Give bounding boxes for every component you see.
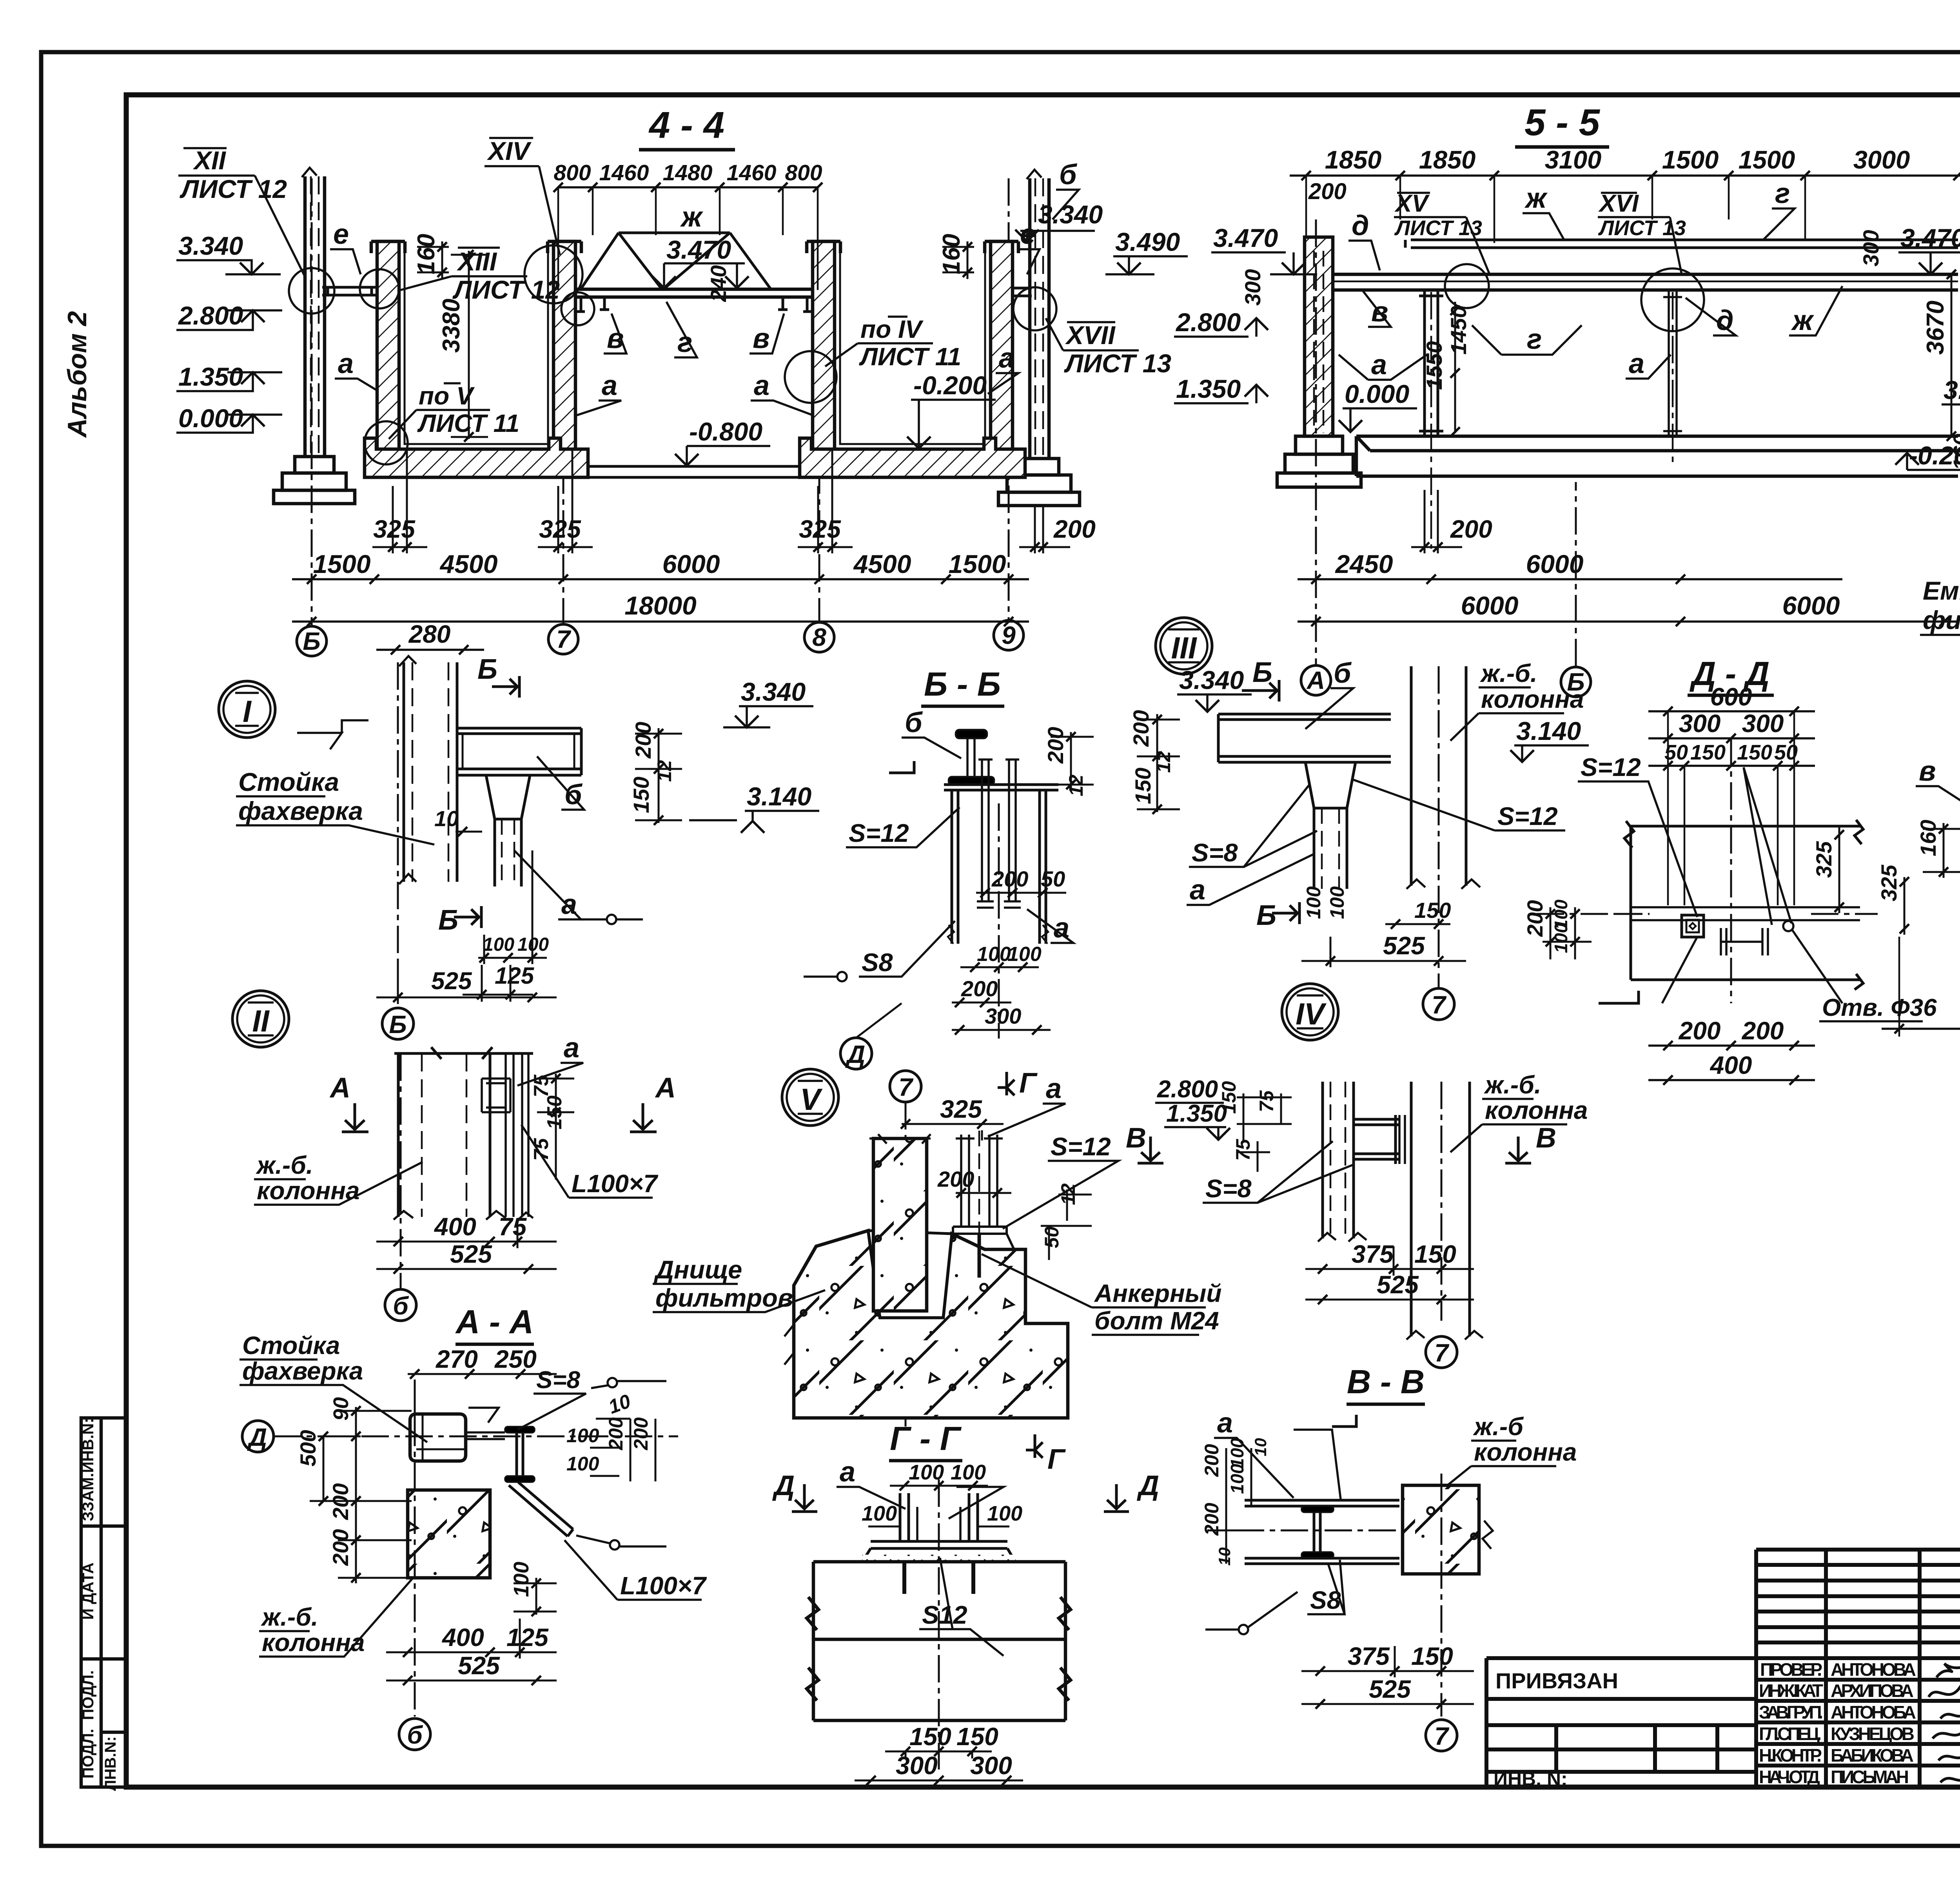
svg-text:100: 100 (1227, 1464, 1247, 1494)
svg-text:И ДАТА: И ДАТА (80, 1563, 97, 1620)
svg-text:а: а (1217, 1407, 1233, 1439)
svg-text:а: а (602, 370, 617, 401)
column axis (400, 1053, 402, 1289)
dims right 10 100 100 200 200 (566, 1390, 652, 1475)
axis bubble 7 (1423, 988, 1454, 1020)
svg-text:7: 7 (1434, 1722, 1450, 1750)
left margin stamp column (81, 1418, 126, 1787)
fachwerk column left (302, 168, 325, 457)
svg-text:колонна: колонна (257, 1177, 360, 1205)
svg-text:Д: Д (845, 1040, 865, 1068)
foundation left break (784, 1325, 794, 1365)
svg-text:В: В (1126, 1122, 1146, 1154)
svg-text:ПИСЬМАН: ПИСЬМАН (1831, 1767, 1909, 1787)
leader with circle (1239, 1625, 1248, 1634)
beam plates top (1245, 1500, 1399, 1506)
bolt square left (1682, 915, 1704, 937)
axis bubble б (399, 1719, 430, 1750)
svg-text:125: 125 (506, 1623, 549, 1651)
svg-text:Б: Б (389, 1010, 407, 1039)
svg-text:800: 800 (554, 160, 591, 185)
svg-text:150: 150 (1131, 768, 1155, 804)
svg-text:НАЧ.ОТД: НАЧ.ОТД (1759, 1767, 1820, 1787)
foundation mass (794, 1231, 1068, 1418)
svg-text:150: 150 (909, 1722, 951, 1751)
svg-text:325: 325 (940, 1095, 982, 1123)
foundation top block (807, 1562, 1071, 1720)
svg-text:3.140: 3.140 (747, 782, 811, 811)
column verticals (1318, 1082, 1367, 1242)
svg-text:III: III (1171, 631, 1197, 665)
middle span beam (575, 289, 813, 297)
svg-text:г: г (1527, 324, 1542, 355)
svg-text:1550: 1550 (1422, 341, 1446, 390)
svg-text:100: 100 (1303, 886, 1325, 919)
svg-text:ж: ж (680, 201, 704, 233)
svg-text:300: 300 (970, 1751, 1012, 1780)
svg-text:1460: 1460 (727, 160, 777, 185)
svg-text:а: а (1046, 1073, 1062, 1104)
svg-text:525: 525 (431, 968, 472, 995)
fachwerk column right (1027, 170, 1049, 459)
svg-text:-0.200: -0.200 (913, 371, 987, 400)
svg-text:ЗАВ.ГРУП.: ЗАВ.ГРУП. (1759, 1702, 1823, 1722)
svg-text:375: 375 (1348, 1642, 1390, 1670)
svg-text:XII: XII (192, 146, 226, 175)
corner mark (1332, 1415, 1356, 1427)
bearing plate (944, 785, 1058, 790)
svg-text:Стойка: Стойка (238, 767, 339, 796)
svg-text:325: 325 (539, 515, 581, 543)
svg-text:ЛИСТ 11: ЛИСТ 11 (859, 343, 961, 371)
svg-text:100: 100 (510, 1562, 533, 1597)
svg-text:XIV: XIV (486, 136, 532, 165)
svg-text:г: г (677, 327, 692, 358)
column top break (394, 1047, 533, 1059)
svg-text:Г: Г (1019, 1068, 1038, 1099)
svg-text:1500: 1500 (1662, 145, 1719, 174)
fachwerk post (399, 656, 457, 884)
node circle beam end (561, 292, 594, 325)
svg-text:ж: ж (1524, 183, 1548, 214)
svg-text:Анкерный: Анкерный (1094, 1279, 1221, 1307)
svg-text:9: 9 (1002, 621, 1016, 649)
svg-text:160: 160 (413, 234, 440, 274)
axis line Б (311, 178, 313, 626)
svg-text:3.490: 3.490 (1115, 227, 1180, 256)
beam plates bottom (1245, 1558, 1399, 1564)
svg-text:150: 150 (1737, 741, 1772, 764)
node I bubble (219, 681, 275, 738)
node circle wall B top (524, 245, 583, 303)
node II bubble (232, 991, 289, 1047)
tank wall A (377, 241, 399, 451)
bracket under beam (1305, 762, 1356, 808)
middle floor at -0.800 (588, 466, 800, 477)
beam (457, 728, 581, 775)
concrete column below (408, 1490, 490, 1578)
svg-text:фахверка: фахверка (238, 796, 363, 825)
svg-text:200: 200 (1043, 727, 1068, 764)
svg-text:Б: Б (438, 905, 458, 936)
svg-text:S=8: S=8 (536, 1367, 581, 1394)
svg-text:150: 150 (1690, 741, 1726, 764)
svg-text:6000: 6000 (1782, 591, 1840, 620)
svg-text:А - А: А - А (455, 1303, 534, 1341)
svg-text:Альбом 2: Альбом 2 (62, 311, 92, 439)
svg-text:ИНЖ.IКАТ: ИНЖ.IКАТ (1759, 1680, 1823, 1701)
svg-text:200: 200 (631, 722, 655, 759)
svg-text:по V: по V (419, 382, 475, 410)
svg-text:100: 100 (1326, 886, 1348, 919)
svg-text:ЛИСТ 13: ЛИСТ 13 (1064, 349, 1171, 378)
axis Д bubble (242, 1421, 274, 1452)
svg-text:S=8: S=8 (1205, 1174, 1252, 1203)
svg-text:10: 10 (1251, 1438, 1270, 1456)
svg-text:фильтров: фильтров (655, 1283, 793, 1312)
axis bubble 8 (804, 622, 834, 652)
svg-text:300: 300 (985, 1004, 1021, 1028)
approval names (1759, 1659, 1916, 1787)
svg-text:100: 100 (1007, 943, 1042, 966)
svg-text:г: г (1775, 178, 1790, 209)
svg-text:А: А (655, 1072, 676, 1104)
svg-text:б: б (393, 1292, 409, 1320)
base slab left (hatched) (365, 438, 588, 477)
svg-text:БАБИКОВА: БАБИКОВА (1831, 1745, 1914, 1766)
svg-text:а: а (561, 889, 577, 920)
concrete column section (1403, 1485, 1479, 1574)
axis bubble Б (297, 626, 327, 656)
svg-text:XVI: XVI (1598, 190, 1639, 217)
column below (952, 790, 1046, 944)
svg-text:250: 250 (494, 1345, 537, 1373)
svg-text:S=12: S=12 (849, 819, 909, 847)
beam (1218, 714, 1391, 762)
svg-text:Д: Д (772, 1470, 795, 1501)
svg-text:150: 150 (956, 1722, 998, 1751)
svg-text:S8: S8 (862, 948, 893, 977)
svg-text:3000: 3000 (1853, 145, 1910, 174)
axis bubble А (1301, 665, 1331, 695)
svg-text:7: 7 (1434, 1339, 1450, 1367)
svg-text:1850: 1850 (1325, 145, 1382, 174)
axis bubble 7 (548, 624, 578, 654)
axis bubble Б (382, 1008, 414, 1039)
bolt circle right (1783, 921, 1793, 931)
svg-text:3.340: 3.340 (741, 677, 806, 706)
leader to beam (1744, 767, 1791, 925)
svg-text:200: 200 (1523, 900, 1547, 937)
column footing left (274, 457, 355, 504)
svg-text:75: 75 (1232, 1138, 1254, 1161)
axis bubble б (385, 1289, 416, 1321)
svg-text:500: 500 (296, 1430, 320, 1467)
svg-text:100: 100 (1227, 1438, 1247, 1468)
center axis (1730, 738, 1732, 1003)
axis line 7 (563, 247, 564, 624)
svg-text:ЛНВ.N:: ЛНВ.N: (102, 1736, 119, 1791)
svg-text:150: 150 (629, 777, 653, 813)
svg-text:ПРИВЯЗАН: ПРИВЯЗАН (1495, 1668, 1618, 1693)
column 1 axis (1430, 292, 1432, 549)
svg-text:1500: 1500 (949, 549, 1006, 578)
svg-text:3.470: 3.470 (1900, 223, 1960, 252)
svg-text:Г: Г (1047, 1444, 1066, 1475)
svg-text:3100: 3100 (1545, 145, 1602, 174)
node III bubble (1156, 618, 1212, 674)
svg-text:4500: 4500 (853, 549, 911, 578)
svg-text:3.340: 3.340 (178, 231, 243, 260)
svg-text:S=12: S=12 (1497, 802, 1558, 830)
svg-text:100: 100 (483, 934, 514, 955)
column axis vertical (414, 1419, 416, 1717)
svg-text:Стойка: Стойка (242, 1331, 340, 1360)
svg-text:ж.-б.: ж.-б. (256, 1151, 313, 1179)
svg-text:1500: 1500 (1739, 145, 1795, 174)
svg-text:1.350: 1.350 (178, 362, 243, 391)
svg-text:ж.-б.: ж.-б. (1484, 1071, 1541, 1099)
svg-text:V: V (800, 1082, 823, 1117)
svg-text:1480: 1480 (663, 160, 713, 185)
svg-text:2450: 2450 (1335, 549, 1393, 578)
center axis (938, 1479, 940, 1769)
svg-text:6000: 6000 (1461, 591, 1519, 620)
I-beam column 2 (thin) (1663, 290, 1682, 436)
node circle wall A bottom (365, 421, 408, 464)
axis А dashdot (1315, 219, 1317, 665)
svg-text:ж.-б.: ж.-б. (1480, 659, 1537, 687)
svg-text:3380: 3380 (438, 299, 465, 353)
svg-text:колонна: колонна (262, 1628, 365, 1657)
svg-text:240: 240 (706, 265, 731, 302)
beam end posts (577, 297, 811, 312)
axis line 8 (818, 247, 820, 622)
axis bubble 7 (1426, 1336, 1457, 1368)
svg-text:525: 525 (1369, 1675, 1411, 1703)
left wall (hatched) (1305, 237, 1333, 436)
svg-text:ЛИСТ 12: ЛИСТ 12 (180, 174, 287, 203)
concrete column (1406, 666, 1480, 889)
svg-text:колонна: колонна (1485, 1096, 1588, 1124)
svg-text:XV: XV (1394, 190, 1430, 217)
svg-text:300: 300 (1679, 709, 1721, 738)
svg-text:б: б (1059, 159, 1078, 190)
top dim row 1850 1850 3100 1500 1500 3000 (1290, 174, 1960, 177)
svg-text:160: 160 (938, 234, 965, 274)
plan rectangle (1624, 820, 1863, 990)
axis bubble Д (840, 1038, 872, 1069)
svg-text:S12: S12 (922, 1601, 967, 1629)
signatures (1929, 1664, 1960, 1784)
svg-text:50: 50 (1041, 1226, 1063, 1248)
anchor bolts (977, 760, 1021, 908)
title block outline (1486, 1550, 1960, 1787)
extension verticals (1668, 711, 1794, 905)
svg-text:Б: Б (303, 627, 320, 655)
svg-text:1500: 1500 (313, 549, 371, 578)
svg-text:0.000: 0.000 (178, 404, 243, 433)
svg-text:в: в (1919, 756, 1936, 787)
svg-text:400: 400 (1710, 1051, 1752, 1079)
connection plate (482, 1079, 510, 1112)
pocket interior gap (868, 1231, 952, 1318)
svg-text:325: 325 (1877, 865, 1901, 901)
anchor bolt pair (956, 1131, 1003, 1266)
svg-text:100: 100 (566, 1425, 599, 1447)
sub beams в (600, 297, 788, 310)
beam strip horizontal (1631, 907, 1860, 920)
corner mark (297, 720, 368, 749)
svg-text:а: а (1629, 348, 1644, 379)
svg-text:ЛИСТ 11: ЛИСТ 11 (417, 409, 519, 437)
svg-text:270: 270 (436, 1345, 478, 1373)
dim 50 150 150 50 (1664, 741, 1798, 764)
svg-text:75: 75 (499, 1213, 527, 1241)
svg-text:I: I (243, 694, 252, 729)
svg-text:150: 150 (1411, 1642, 1453, 1670)
concrete column (hatched) (873, 1138, 927, 1311)
I-beam section (505, 1427, 535, 1482)
node IV bubble (1282, 984, 1338, 1040)
svg-text:800: 800 (785, 160, 822, 185)
svg-text:100: 100 (951, 1461, 986, 1484)
svg-text:Отв. Ф36: Отв. Ф36 (1822, 994, 1937, 1021)
svg-text:200: 200 (630, 1417, 652, 1450)
svg-text:200: 200 (1679, 1017, 1721, 1045)
column footing right (998, 459, 1080, 506)
bolt base plate (946, 1227, 1014, 1249)
svg-text:3.470: 3.470 (1213, 223, 1278, 252)
svg-text:б: б (407, 1721, 423, 1749)
svg-text:7: 7 (1432, 991, 1447, 1019)
svg-text:325: 325 (1811, 841, 1836, 878)
svg-text:Н.КОНТР.: Н.КОНТР. (1759, 1745, 1822, 1766)
svg-text:фильтра: фильтра (1923, 605, 1960, 634)
roof slab lines (1405, 240, 1958, 248)
svg-text:200: 200 (1742, 1017, 1784, 1045)
svg-text:400: 400 (434, 1213, 476, 1241)
svg-text:1460: 1460 (599, 160, 649, 185)
svg-text:Д: Д (247, 1423, 267, 1451)
svg-text:10: 10 (1215, 1547, 1234, 1566)
svg-text:а: а (564, 1032, 579, 1064)
axis line 9 (1008, 178, 1010, 620)
svg-text:600: 600 (1710, 683, 1752, 711)
svg-text:200: 200 (1053, 515, 1096, 543)
svg-text:IV: IV (1296, 997, 1327, 1031)
bottom slab (1356, 436, 1958, 476)
section mark Г top (998, 1072, 1014, 1095)
svg-text:д: д (1352, 210, 1369, 241)
gusset plate (466, 1432, 505, 1439)
svg-text:А: А (329, 1072, 350, 1104)
svg-text:160: 160 (1916, 820, 1940, 856)
svg-text:400: 400 (441, 1623, 484, 1651)
svg-text:колонна: колонна (1474, 1438, 1577, 1466)
corner mark bottom left (1599, 991, 1639, 1003)
wall inner column dashed (1313, 251, 1315, 433)
column 2 axis (1672, 292, 1674, 462)
top dim row 800-1460-1480-1460-800 (558, 187, 818, 290)
svg-text:7: 7 (556, 625, 572, 653)
svg-text:болт М24: болт М24 (1094, 1307, 1219, 1335)
svg-text:200: 200 (1308, 179, 1347, 204)
svg-text:е: е (333, 219, 349, 250)
svg-text:L100×7: L100×7 (620, 1572, 707, 1600)
axis bubble 7 (1426, 1720, 1457, 1751)
svg-text:а: а (1371, 349, 1387, 381)
floor beam right span (1013, 288, 1032, 296)
svg-text:300: 300 (1858, 230, 1883, 266)
svg-text:КУЗНЕЦОВ: КУЗНЕЦОВ (1831, 1724, 1915, 1744)
svg-text:Г - Г: Г - Г (890, 1420, 962, 1457)
svg-text:200: 200 (1201, 1444, 1223, 1477)
svg-text:90: 90 (329, 1397, 353, 1421)
svg-text:3.470: 3.470 (666, 235, 731, 264)
svg-text:3670: 3670 (1922, 301, 1949, 355)
floor beam left span (322, 287, 377, 295)
axis bubble 7 (890, 1071, 921, 1102)
svg-text:3.340: 3.340 (1179, 665, 1244, 694)
svg-text:280: 280 (408, 620, 451, 648)
horizontal axis (1237, 1530, 1419, 1532)
svg-text:а: а (754, 370, 769, 401)
node circle wall C mid (785, 351, 837, 403)
svg-text:200: 200 (1450, 515, 1492, 543)
svg-text:4 - 4: 4 - 4 (648, 104, 724, 146)
console below (495, 819, 521, 886)
svg-text:525: 525 (1383, 932, 1425, 960)
tank wall B (554, 241, 575, 451)
svg-text:XVII: XVII (1065, 321, 1116, 350)
svg-text:колонна: колонна (1481, 685, 1584, 713)
base plate (871, 1541, 1007, 1548)
svg-text:2.800: 2.800 (1175, 308, 1241, 337)
wall footing (1277, 436, 1361, 487)
post axis (397, 662, 399, 992)
column pocket inner line (873, 1310, 927, 1312)
svg-text:200: 200 (1129, 710, 1153, 747)
anchor bolts (900, 1493, 978, 1541)
tank wall D (991, 241, 1013, 451)
svg-text:525: 525 (458, 1651, 500, 1680)
title block (1486, 1550, 1960, 1787)
svg-text:200: 200 (328, 1529, 353, 1566)
diagonal angle (509, 1482, 573, 1536)
I-beam section in plan (1721, 928, 1768, 955)
svg-text:2.800: 2.800 (178, 301, 243, 330)
svg-text:XIII: XIII (456, 247, 497, 276)
svg-text:3.340: 3.340 (1944, 375, 1960, 404)
anchor bolt into foundation (978, 1234, 981, 1278)
signature rows (1756, 1678, 1960, 1682)
svg-text:ж: ж (1791, 305, 1815, 336)
svg-text:L100×7: L100×7 (572, 1169, 659, 1198)
svg-text:А: А (1306, 666, 1325, 694)
svg-text:б: б (905, 707, 923, 738)
svg-text:50: 50 (1041, 867, 1065, 891)
I-beam column 1 (1419, 290, 1443, 436)
base slab right (hatched) (800, 438, 1025, 477)
svg-text:ЛИСТ 13: ЛИСТ 13 (1394, 216, 1482, 240)
svg-text:е: е (1020, 219, 1036, 250)
svg-text:160: 160 (1949, 434, 1960, 470)
axis bubble Б (1561, 667, 1591, 697)
svg-text:2.800: 2.800 (1157, 1076, 1218, 1103)
svg-text:12: 12 (1152, 751, 1174, 773)
dim row 6000 6000 (1298, 620, 1958, 623)
